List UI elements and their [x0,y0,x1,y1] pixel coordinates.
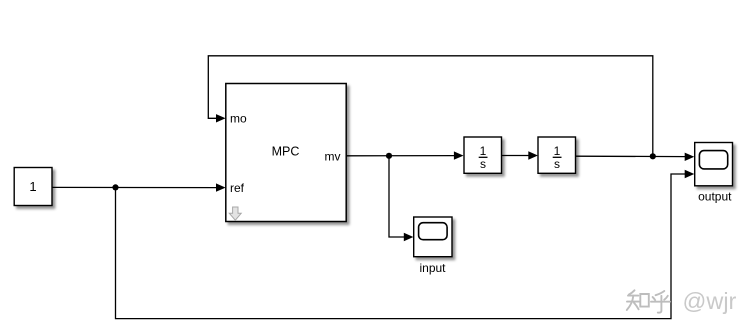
node A junction (ref / bottom feedback) [112,184,118,190]
node B junction (mv / input scope) [386,153,392,159]
svg-text:ref: ref [230,181,245,195]
arrowhead into integrator 1 [454,151,464,159]
MPC block U1 [226,84,346,222]
wire constant output to junction A and ref port [52,186,218,188]
glyph 知 [629,290,635,294]
svg-text:s: s [480,157,486,171]
wire mv output to integrator 1 [346,155,456,157]
arrowhead into MPC ref port [216,183,226,191]
arrowhead into input scope port [404,233,414,241]
wire node A down, along bottom, up to output scope lower port [116,174,688,319]
node C junction (output / top feedback) [650,153,656,159]
svg-text:MPC: MPC [272,145,300,159]
svg-text:output: output [698,189,732,203]
arrowhead into MPC mo port [216,114,226,122]
svg-text:mv: mv [325,149,341,163]
svg-text:input: input [419,261,446,275]
svg-text:mo: mo [230,112,247,126]
gray resize arrow inside MPC [229,207,241,220]
svg-text:s: s [554,157,560,171]
integrator block 1 (1/s) [464,137,502,173]
svg-text:1: 1 [29,179,36,194]
watermark 知乎 @wjr [627,290,670,312]
arrowhead into output scope lower port [685,170,695,178]
output scope block [695,143,733,186]
input scope block [414,217,452,257]
svg-text:@wjr: @wjr [683,288,737,314]
constant block "1" [14,168,52,206]
arrowhead into integrator 2 [528,151,538,159]
integrator block 2 (1/s) [538,137,576,173]
wire node B down to input scope [389,156,406,237]
arrowhead into output scope upper port [685,153,695,161]
glyph 乎 [656,291,665,295]
wire integrator 2 to node C and output scope upper port [576,155,688,157]
wire top feedback from node C to mo port [208,56,653,157]
wire integrator 1 to integrator 2 [502,155,531,157]
